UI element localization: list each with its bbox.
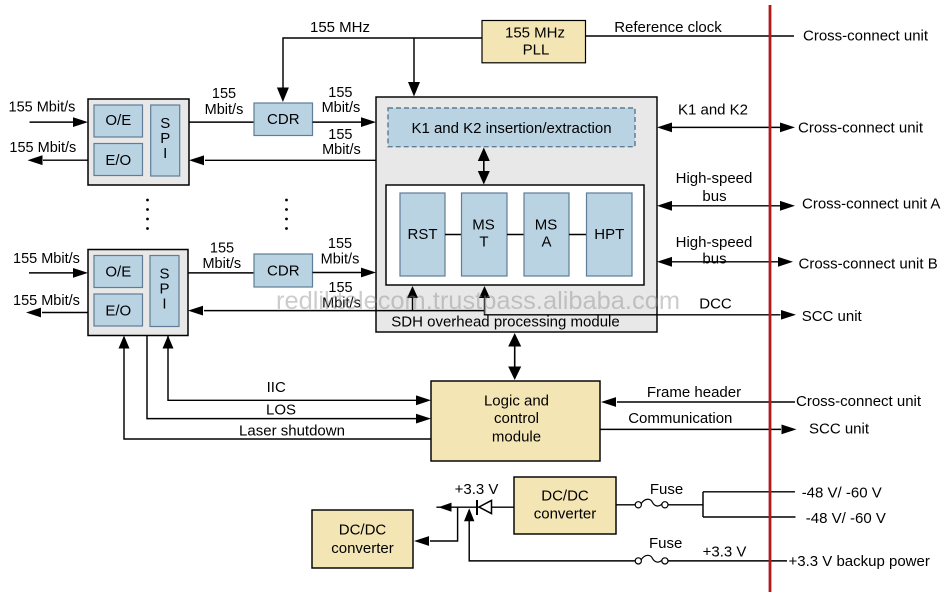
svg-text:A: A [541, 234, 551, 251]
svg-text:+3.3 V: +3.3 V [703, 544, 747, 561]
svg-text:Cross-connect unit: Cross-connect unit [803, 27, 929, 44]
svg-text:155: 155 [210, 241, 234, 257]
double arrow: K1/K2 to cross-connect unit [657, 123, 795, 133]
double arrow: SDH module to logic module [508, 333, 521, 380]
HPT block [587, 193, 633, 276]
wire: 155 Mbit/s input to block 1 [30, 121, 74, 123]
svg-text:+3.3 V: +3.3 V [455, 481, 499, 498]
wire: communication to SCC unit [600, 425, 797, 435]
E/O converter (block 1) [94, 144, 143, 176]
wire: SDH module return path to block 2 [204, 310, 485, 312]
svg-text:HPT: HPT [594, 226, 624, 243]
O/E converter (block 1) [94, 105, 143, 137]
svg-text:module: module [492, 428, 541, 445]
svg-text:-48 V/ -60 V: -48 V/ -60 V [802, 484, 882, 501]
svg-text:155 Mbit/s: 155 Mbit/s [9, 100, 76, 116]
CDR 2 [254, 254, 313, 287]
svg-text:DC/DC: DC/DC [339, 522, 387, 539]
svg-text:Cross-connect unit: Cross-connect unit [796, 393, 922, 410]
backplane boundary (red line) [769, 5, 772, 592]
wire: +3.3 V rail from main converter [436, 506, 514, 508]
wire: CDR 1 to SDH module [313, 121, 362, 123]
arrowhead: clock into SDH module [408, 82, 420, 97]
svg-text:Mbit/s: Mbit/s [205, 102, 244, 118]
svg-text:Laser shutdown: Laser shutdown [239, 423, 345, 440]
logic and control module [431, 381, 600, 461]
fuse F2 [635, 555, 668, 564]
svg-text:155 MHz: 155 MHz [505, 24, 565, 41]
svg-text:MS: MS [472, 216, 495, 233]
svg-text:CDR: CDR [267, 111, 300, 128]
svg-text:Logic and: Logic and [484, 392, 549, 409]
wire: 155 Mbit/s input to block 2 [29, 272, 73, 274]
svg-text:LOS: LOS [266, 402, 296, 419]
svg-text:Mbit/s: Mbit/s [322, 100, 361, 116]
svg-text:PLL: PLL [523, 42, 550, 59]
svg-text:+3.3 V backup power: +3.3 V backup power [789, 553, 930, 570]
SPI interface (block 1) [151, 105, 180, 176]
svg-text:High-speed: High-speed [676, 170, 753, 187]
svg-text:Cross-connect unit B: Cross-connect unit B [799, 256, 938, 273]
svg-text:Reference clock: Reference clock [614, 19, 722, 36]
wire: frame header from cross-connect unit [601, 397, 795, 407]
svg-text:Mbit/s: Mbit/s [202, 256, 241, 272]
RST block [400, 193, 445, 276]
svg-text:Cross-connect unit A: Cross-connect unit A [802, 196, 940, 213]
DC/DC converter (main, right) [514, 477, 616, 534]
svg-text:Cross-connect unit: Cross-connect unit [798, 119, 924, 136]
DC/DC converter (backup, left) [312, 510, 413, 568]
wire: 155 Mbit/s output from block 2 [42, 312, 88, 314]
svg-text:K1 and K2: K1 and K2 [678, 102, 748, 119]
wire: IIC [163, 336, 432, 406]
svg-text:bus: bus [702, 251, 726, 268]
svg-text:I: I [163, 145, 167, 162]
fuse F1 [635, 499, 668, 508]
O/E converter (block 2) [94, 256, 143, 288]
inner payload processing box [386, 185, 644, 285]
K1 and K2 insertion/extraction block [388, 108, 635, 147]
wire: 155 MHz clock distribution [283, 38, 482, 88]
optical transceiver block 1 [88, 99, 189, 185]
svg-text:control: control [494, 410, 539, 427]
svg-text:E/O: E/O [105, 152, 131, 169]
svg-text:converter: converter [331, 540, 394, 557]
svg-text:High-speed: High-speed [676, 234, 753, 251]
svg-text:E/O: E/O [105, 303, 131, 320]
svg-text:Frame header: Frame header [647, 384, 741, 401]
ellipsis dots between CDRs [285, 199, 288, 230]
wire: reference clock [586, 35, 795, 37]
svg-text:155 Mbit/s: 155 Mbit/s [9, 140, 76, 156]
double arrow: K1/K2 block to payload processor [478, 148, 490, 185]
wire: DCC line to SCC unit [485, 311, 781, 315]
double arrow: high-speed bus A [657, 201, 795, 211]
double arrow: high-speed bus B [657, 257, 793, 267]
wire: SDH module return to block 1 [205, 159, 376, 161]
svg-text:Mbit/s: Mbit/s [321, 252, 360, 268]
svg-text:DCC: DCC [699, 296, 732, 313]
svg-text:Communication: Communication [628, 410, 732, 427]
wire: backup power feed with up arrow [464, 508, 474, 561]
internal arrow into payload box (right) [479, 286, 490, 311]
svg-text:Fuse: Fuse [649, 535, 682, 552]
svg-text:155: 155 [212, 86, 236, 102]
wire: MSA to HPT [569, 234, 587, 236]
svg-text:bus: bus [702, 188, 726, 205]
wire: Laser shutdown [119, 336, 432, 440]
svg-text:SCC unit: SCC unit [802, 308, 863, 325]
PLL U1: 155 MHz PLL [482, 21, 586, 63]
svg-text:Mbit/s: Mbit/s [322, 142, 361, 158]
svg-text:155 MHz: 155 MHz [310, 19, 370, 36]
wire: MST to MSA [507, 234, 524, 236]
wire: block 2 to CDR 2 [188, 272, 254, 274]
svg-text:155: 155 [328, 85, 352, 101]
svg-text:155 Mbit/s: 155 Mbit/s [13, 251, 80, 267]
svg-text:SCC unit: SCC unit [809, 421, 870, 438]
wire: LOS [147, 336, 431, 424]
arrowhead: +3.3 V distribution [438, 503, 451, 512]
svg-text:O/E: O/E [105, 112, 131, 129]
node: -48 V joining bar [703, 492, 796, 517]
svg-text:IIC: IIC [267, 379, 286, 396]
wire: -48 V input through fuse F1 [616, 504, 635, 506]
arrowhead: clock into CDR 1 [277, 88, 289, 103]
wire: 155 Mbit/s output from block 1 [43, 159, 88, 161]
optical transceiver block 2 [88, 250, 188, 336]
wire: RST to MST [445, 234, 462, 236]
svg-text:I: I [162, 296, 166, 313]
svg-text:155 Mbit/s: 155 Mbit/s [13, 293, 80, 309]
E/O converter (block 2) [94, 294, 143, 326]
internal arrow into payload box (left) [407, 286, 418, 311]
svg-text:converter: converter [534, 506, 597, 523]
svg-text:O/E: O/E [105, 264, 131, 281]
svg-text:T: T [479, 234, 488, 251]
diode D1 [477, 500, 492, 515]
SPI interface (block 2) [150, 256, 179, 327]
ellipsis dots between transceivers [146, 199, 149, 230]
svg-text:SDH overhead processing module: SDH overhead processing module [391, 314, 619, 331]
svg-text:K1 and K2 insertion/extraction: K1 and K2 insertion/extraction [411, 120, 611, 137]
svg-text:-48 V/ -60 V: -48 V/ -60 V [806, 510, 886, 527]
wire: +3.3 V backup power through fuse F2 [469, 560, 636, 562]
svg-text:CDR: CDR [267, 263, 300, 280]
wire: branch to backup DC/DC converter [414, 507, 458, 546]
svg-text:Fuse: Fuse [650, 481, 683, 498]
wire: CDR 2 to SDH module [313, 272, 362, 274]
svg-text:MS: MS [535, 216, 558, 233]
MSA block [524, 193, 569, 276]
MST block [462, 193, 508, 276]
SDH overhead processing module (outer) [376, 97, 657, 332]
wire: block 1 to CDR 1 [189, 121, 254, 123]
svg-text:RST: RST [408, 226, 438, 243]
svg-text:155: 155 [328, 236, 352, 252]
svg-text:redliktelecom.trustpass.alibab: redliktelecom.trustpass.alibaba.com [276, 287, 680, 315]
svg-text:155: 155 [328, 127, 352, 143]
CDR 1 [254, 103, 313, 136]
svg-text:DC/DC: DC/DC [541, 488, 589, 505]
